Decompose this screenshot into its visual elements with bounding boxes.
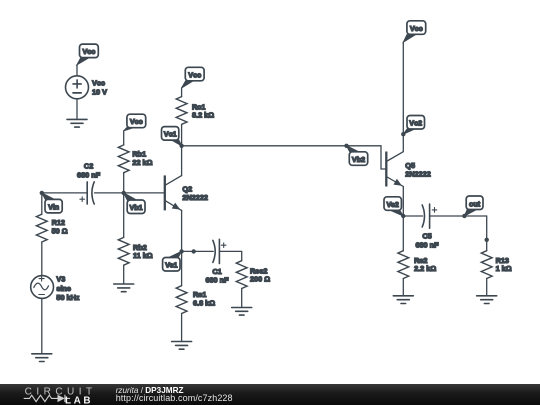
junction dot Vc1 <box>179 144 183 148</box>
voltage source V1 Vcc 10V <box>66 76 108 99</box>
svg-text:11 kΩ: 11 kΩ <box>133 251 153 260</box>
svg-text:1 kΩ: 1 kΩ <box>496 264 512 273</box>
ground below Vcc source <box>67 119 87 127</box>
capacitor C5 680nF <box>415 204 439 249</box>
svg-text:Ve1: Ve1 <box>165 261 177 270</box>
wire joint dot on R13 wire <box>485 238 489 242</box>
wire Re1 to ground <box>181 314 183 342</box>
svg-text:2N2222: 2N2222 <box>405 169 431 178</box>
wire out to R13 <box>464 216 486 251</box>
wire Vin to C2 <box>42 192 87 194</box>
junction dot out <box>462 214 466 218</box>
wire Res2 to ground <box>241 289 243 308</box>
wire R12 to V3 <box>41 242 43 276</box>
resistor Rb1 22k <box>118 145 152 173</box>
logo diode triangle <box>58 395 65 402</box>
junction dot Vb2 <box>344 144 348 148</box>
wire C5 to out <box>430 215 465 217</box>
wire Rb2 to ground <box>123 265 125 284</box>
wire Vcc flag to Rc1 <box>181 88 183 97</box>
svg-text:C2: C2 <box>84 161 93 170</box>
node Ve2 flag <box>384 197 403 216</box>
svg-text:6.8 kΩ: 6.8 kΩ <box>193 299 215 308</box>
wire Q2 collector up <box>181 146 183 176</box>
wire Rc1 to Vc1 <box>181 124 183 145</box>
svg-text:680 nF: 680 nF <box>415 240 439 249</box>
node Vb2 flag <box>347 146 368 166</box>
svg-text:Vc2: Vc2 <box>409 119 422 128</box>
svg-text:Ve2: Ve2 <box>386 200 398 209</box>
svg-text:2N2222: 2N2222 <box>182 193 208 202</box>
svg-text:Vin: Vin <box>48 202 59 211</box>
wire Ve2 down to Re2 <box>402 216 404 251</box>
wire V3 to ground <box>41 298 43 354</box>
node Vc2 flag <box>403 116 424 135</box>
ground below V3 <box>32 354 52 362</box>
junction dot Vb1 <box>122 191 126 195</box>
svg-text:50 kHz: 50 kHz <box>56 293 79 302</box>
svg-text:Vcc: Vcc <box>92 79 105 88</box>
resistor Re1 6.8k <box>176 286 215 314</box>
node Vc1 flag <box>162 127 182 146</box>
ground below Res2 <box>232 308 252 316</box>
resistor Res2 200 ohm <box>236 261 270 289</box>
wire Re2 to ground <box>402 279 404 296</box>
node out flag <box>464 196 483 216</box>
svg-text:680 nF: 680 nF <box>205 276 229 285</box>
wire Vcc source bottom <box>76 99 78 120</box>
svg-text:50 Ω: 50 Ω <box>52 226 68 235</box>
svg-text:2.2 kΩ: 2.2 kΩ <box>414 264 436 273</box>
resistor R12 50 ohm <box>36 214 67 242</box>
node Ve1 flag <box>163 251 182 271</box>
wire Rb1 to Vb1 <box>123 173 125 193</box>
svg-text:8.2 kΩ: 8.2 kΩ <box>192 111 214 120</box>
junction dot Ve2 <box>401 214 405 218</box>
svg-text:Vcc: Vcc <box>410 24 423 33</box>
svg-text:Vcc: Vcc <box>130 117 143 126</box>
svg-text:Vc1: Vc1 <box>164 130 177 139</box>
wire Vc1 to Q5 base <box>182 146 387 169</box>
wire Ve1 down to Re1 <box>181 251 183 285</box>
svg-text:10 V: 10 V <box>92 88 107 97</box>
net flag Vcc (top-left) <box>77 44 98 65</box>
wire Vcc to Vc2/Q5 collector <box>402 42 404 151</box>
net flag Vcc (top right) <box>403 21 425 42</box>
svg-text:sine: sine <box>56 284 71 293</box>
logo resistor-diode line <box>24 395 70 402</box>
svg-text:200 Ω: 200 Ω <box>250 275 270 284</box>
svg-text:out: out <box>469 200 481 209</box>
resistor Rb2 11k <box>118 237 152 265</box>
net flag Vcc (above Rc1) <box>182 67 205 88</box>
svg-text:680 nF: 680 nF <box>77 171 101 180</box>
wire C2 to Vb1 <box>95 192 124 194</box>
junction dot Vin <box>40 191 44 195</box>
resistor R13 1k <box>481 251 511 279</box>
wire Vcc source top <box>76 65 78 76</box>
capacitor C2 680nF <box>77 161 101 204</box>
wire Vb1 down to Rb2 <box>123 193 125 238</box>
wire C1 to Res2 <box>219 251 241 260</box>
svg-text:C5: C5 <box>422 232 431 241</box>
wire Q2 emitter down to Ve1 <box>181 210 183 251</box>
ground below Re1 <box>172 342 192 350</box>
svg-text:Vb1: Vb1 <box>130 203 143 212</box>
wire Vin down to R12 <box>41 193 43 214</box>
transistor Q2 2N2222 <box>165 175 208 210</box>
net flag Vcc (above Rb1) <box>124 114 146 131</box>
node Vb1 flag <box>124 193 145 214</box>
svg-text:Vcc: Vcc <box>83 47 96 56</box>
wire Vb1 to Q2 base <box>124 192 165 194</box>
wire Q5 emitter down to Ve2 <box>402 187 404 217</box>
voltage source V3 sine 50kHz <box>31 275 80 303</box>
resistor Re2 2.2k <box>398 251 436 279</box>
junction dot Vc2 <box>401 132 405 136</box>
ground below Re2 <box>393 296 413 304</box>
resistor Rc1 8.2k <box>176 97 214 125</box>
transistor Q5 2N2222 <box>386 152 431 187</box>
svg-text:C1: C1 <box>212 267 221 276</box>
svg-text:22 kΩ: 22 kΩ <box>132 158 152 167</box>
ground below R13 <box>477 296 497 304</box>
node Vin flag <box>42 193 62 213</box>
wire R13 to ground <box>486 279 488 296</box>
svg-text:Vb2: Vb2 <box>352 155 365 164</box>
junction dot Ve1 <box>179 249 183 253</box>
capacitor C1 680nF <box>205 239 229 284</box>
wire joint dot on Ve1-C1 wire <box>192 249 196 253</box>
wire Ve2 to C5 <box>403 215 422 217</box>
svg-text:http://circuitlab.com/c7zh228: http://circuitlab.com/c7zh228 <box>116 393 233 403</box>
ground below Rb2 <box>114 284 134 292</box>
svg-text:Vcc: Vcc <box>188 70 201 79</box>
wire Ve1 to C1 <box>182 250 214 252</box>
wire Vcc flag to Rb1 <box>123 131 125 145</box>
svg-text:LAB: LAB <box>65 395 93 405</box>
svg-text:V3: V3 <box>56 275 65 284</box>
